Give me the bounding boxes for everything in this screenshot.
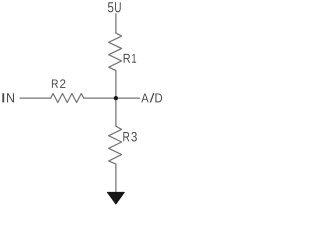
net label A/D [141,93,162,103]
wire R3 to ground [115,164,117,192]
resistor R2 [51,94,84,103]
net label 5V [108,2,121,12]
node junction dot [114,96,118,100]
wire 5V supply to R1 [115,14,117,33]
wire IN to R2 [20,97,51,99]
resistor R1 [109,33,122,70]
wire node to A/D [116,97,139,99]
net label IN [2,93,14,102]
wire R1 to node [115,71,117,99]
label R3 [123,132,137,142]
ground [107,192,124,204]
label R1 [124,54,136,63]
wire node to R3 [115,98,117,126]
wire R2 to node [84,97,116,99]
label R2 [52,79,65,88]
resistor R3 [109,126,122,164]
